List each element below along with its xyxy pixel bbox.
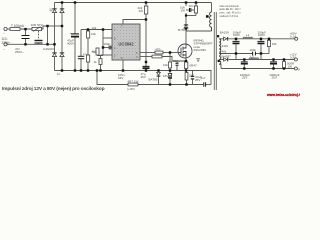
svg-text:0,1A: 0,1A — [290, 34, 296, 38]
svg-text:UC3842: UC3842 — [118, 42, 134, 47]
svg-text:15k: 15k — [272, 42, 277, 46]
svg-text:63V: 63V — [118, 76, 123, 80]
svg-text:4x1N4007: 4x1N4007 — [43, 47, 55, 51]
svg-text:10k: 10k — [91, 32, 96, 36]
svg-text:1n: 1n — [57, 72, 61, 76]
svg-text:0,3A: 0,3A — [290, 55, 296, 59]
svg-text:1W: 1W — [288, 65, 293, 69]
svg-text:220V~: 220V~ — [2, 41, 11, 45]
svg-text:25V: 25V — [272, 76, 277, 80]
svg-text:0V: 0V — [298, 67, 300, 71]
svg-text:1k: 1k — [94, 60, 98, 64]
svg-text:25V: 25V — [242, 76, 247, 80]
svg-text:www.belza.cz/zdroj.htm: www.belza.cz/zdroj.htm — [266, 93, 300, 97]
svg-text:BA159: BA159 — [220, 31, 229, 35]
svg-text:10k: 10k — [163, 63, 168, 67]
svg-text:2SK2039: 2SK2039 — [194, 48, 207, 52]
svg-text:T 100mA: T 100mA — [11, 24, 25, 28]
svg-text:10R NTC: 10R NTC — [31, 23, 44, 27]
svg-text:10k: 10k — [92, 26, 97, 30]
svg-text:2k2: 2k2 — [93, 50, 98, 54]
svg-text:2W: 2W — [139, 9, 144, 13]
svg-text:L2: L2 — [251, 54, 255, 58]
svg-text:47R: 47R — [155, 48, 161, 52]
svg-text:25V: 25V — [141, 75, 146, 79]
svg-text:0R47: 0R47 — [190, 63, 198, 67]
svg-text:2k2: 2k2 — [189, 74, 194, 78]
svg-text:100p: 100p — [104, 42, 111, 46]
svg-text:100V: 100V — [233, 33, 240, 37]
svg-text:10n: 10n — [189, 4, 194, 8]
svg-text:240z: 240z — [222, 44, 229, 48]
svg-text:Impulsní zdroj 12V a 80V (neje: Impulsní zdroj 12V a 80V (nejen) pro osc… — [2, 86, 105, 92]
svg-text:(+15V): (+15V) — [127, 87, 135, 91]
svg-text:220p: 220p — [173, 59, 180, 63]
svg-text:+: + — [70, 31, 72, 35]
svg-text:47n: 47n — [83, 52, 88, 56]
svg-text:100V: 100V — [258, 33, 265, 37]
svg-text:4n7: 4n7 — [201, 76, 206, 80]
svg-text:250V~: 250V~ — [15, 50, 24, 54]
svg-text:1W: 1W — [181, 9, 186, 13]
svg-text:100n: 100n — [250, 48, 257, 52]
svg-text:4R7 1W: 4R7 1W — [128, 80, 139, 84]
svg-text:15V: 15V — [163, 74, 168, 78]
svg-text:40z: 40z — [222, 50, 227, 54]
svg-text:BAT85: BAT85 — [149, 77, 158, 81]
svg-text:1N4937: 1N4937 — [220, 55, 231, 59]
svg-text:BY500: BY500 — [178, 28, 187, 32]
svg-text:400V: 400V — [67, 42, 74, 46]
svg-text:L1: L1 — [246, 33, 250, 37]
svg-text:vodicem 0,3 CuL: vodicem 0,3 CuL — [220, 15, 239, 18]
